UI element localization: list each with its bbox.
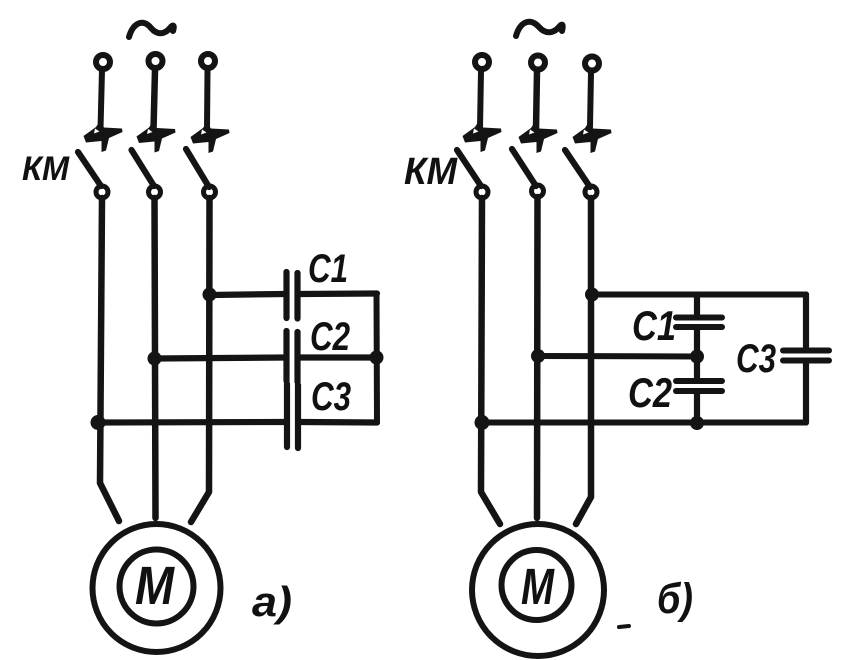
- svg-text:C3: C3: [311, 375, 351, 419]
- svg-text:а): а): [252, 578, 292, 625]
- svg-text:C1: C1: [632, 302, 676, 349]
- svg-text:М: М: [135, 556, 175, 616]
- svg-text:КМ: КМ: [404, 151, 458, 193]
- svg-text:C3: C3: [736, 337, 776, 381]
- svg-text:М: М: [521, 558, 555, 615]
- svg-text:C1: C1: [308, 247, 348, 291]
- svg-text:C2: C2: [310, 315, 350, 359]
- svg-text:КМ: КМ: [22, 150, 70, 188]
- svg-text:C2: C2: [628, 369, 672, 416]
- svg-text:б): б): [657, 575, 693, 623]
